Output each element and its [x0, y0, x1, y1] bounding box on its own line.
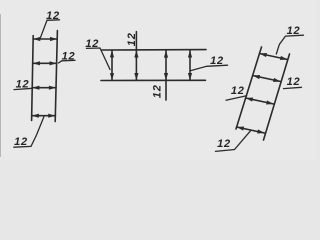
svg-text:12: 12	[62, 51, 76, 63]
figure A label 12 left underline	[14, 88, 32, 89]
figure A dimension line 4	[32, 114, 56, 118]
figure C dimension line 3	[246, 98, 274, 105]
figure A left rail	[32, 36, 34, 121]
svg-text:12: 12	[152, 84, 164, 98]
figure B arrow 2	[134, 32, 138, 81]
figure C dimension line 1	[260, 53, 288, 60]
figure A dimension line 2	[33, 61, 57, 65]
svg-text:12: 12	[85, 38, 99, 50]
figure B leader left	[86, 48, 110, 70]
figure B bottom rail	[101, 79, 206, 81]
figure A dimension line 3	[32, 86, 56, 90]
svg-text:12: 12	[287, 25, 301, 37]
figure B top rail	[102, 49, 207, 51]
svg-text:12: 12	[287, 76, 301, 88]
figure C label 12 left underline	[226, 96, 247, 100]
figure C dimension line 2	[253, 75, 281, 82]
figure C dimension line 4	[237, 127, 265, 134]
svg-text:12: 12	[126, 32, 138, 46]
svg-text:12: 12	[16, 79, 30, 91]
figure A leader bottom	[14, 117, 44, 147]
figure B arrow 3	[164, 50, 168, 100]
figure C left rail	[236, 47, 262, 129]
figure C leader top	[276, 35, 303, 54]
figure C label 12 right underline	[284, 87, 302, 88]
figure B arrow 4	[188, 50, 192, 80]
svg-text:12: 12	[14, 136, 28, 148]
figure B arrow 1	[110, 50, 114, 80]
figure A leader top	[40, 20, 60, 39]
figure C right rail	[264, 54, 290, 140]
figure A dimension line 1	[33, 37, 57, 41]
figure B leader right	[190, 65, 227, 71]
figure A right rail	[55, 31, 57, 122]
scan edge line	[0, 14, 2, 157]
figure C leader bottom	[216, 131, 251, 152]
svg-text:12: 12	[231, 85, 245, 97]
figure A label 12 right underline	[59, 60, 76, 63]
svg-text:12: 12	[210, 55, 224, 67]
svg-text:12: 12	[46, 10, 60, 22]
svg-text:12: 12	[217, 138, 231, 150]
